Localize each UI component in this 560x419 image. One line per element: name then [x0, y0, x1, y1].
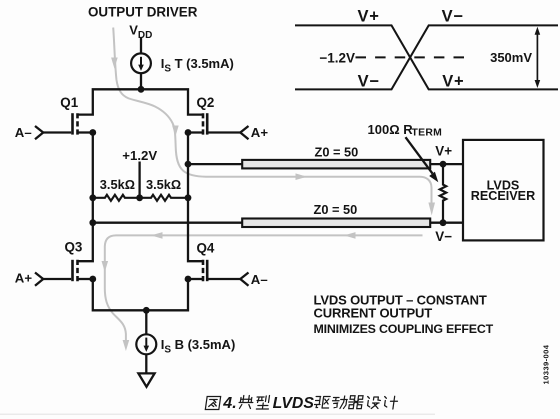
svg-text:V+: V+ — [435, 143, 452, 158]
node V- — [440, 219, 447, 226]
wire Q2 gate to A+ chevron — [209, 131, 241, 133]
node Q1 source — [89, 129, 96, 136]
svg-text:V−: V− — [435, 229, 452, 244]
wire bottom output rail to line — [93, 222, 242, 224]
wire top rail with left and right drops — [78, 89, 204, 114]
wire current source to rail — [140, 73, 142, 89]
transistor Q1 — [78, 131, 93, 133]
svg-text:−1.2V: −1.2V — [319, 50, 355, 65]
svg-text:3.5kΩ: 3.5kΩ — [100, 177, 135, 192]
wire output+ to transmission line — [188, 163, 242, 165]
svg-text:350mV: 350mV — [490, 50, 532, 65]
svg-text:A–: A– — [251, 272, 268, 287]
node Q4 source — [185, 276, 192, 283]
wire to IS B — [145, 310, 147, 334]
gray current flow path top loop — [113, 28, 431, 203]
svg-text:Z0 = 50: Z0 = 50 — [315, 144, 359, 159]
svg-text:IS B (3.5mA): IS B (3.5mA) — [161, 337, 236, 355]
svg-text:TERM: TERM — [412, 127, 443, 138]
wire VDD stem — [140, 38, 142, 54]
svg-text:V−: V− — [358, 73, 380, 91]
svg-text:Q3: Q3 — [65, 239, 83, 254]
svg-text:RECEIVER: RECEIVER — [471, 189, 535, 203]
transmission line Z0=50 bottom — [242, 219, 430, 228]
input A- bottom chevron — [240, 273, 248, 286]
gray arrowhead down at RTERM — [428, 203, 435, 216]
eye diagram -1.2V dashed level — [356, 56, 465, 58]
svg-text:V+: V+ — [358, 8, 380, 26]
svg-text:MINIMIZES COUPLING EFFECT: MINIMIZES COUPLING EFFECT — [314, 322, 494, 336]
node V+ — [440, 161, 447, 168]
wire line to V- node and receiver — [430, 222, 463, 224]
caption char dong — [331, 396, 347, 409]
eye diagram waveform line 2 — [295, 25, 558, 89]
input A+ top chevron — [240, 126, 248, 139]
svg-text:IS T (3.5mA): IS T (3.5mA) — [161, 56, 234, 74]
wire Q3 source down and bottom rail and Q4 source down — [93, 279, 188, 310]
node right resistor rail — [185, 194, 192, 201]
arrow RTERM label pointer — [406, 137, 433, 173]
svg-text:A+: A+ — [251, 125, 269, 140]
svg-text:V−: V− — [442, 8, 464, 26]
wire right column — [188, 133, 203, 262]
svg-text:Q1: Q1 — [60, 95, 78, 110]
svg-text:A+: A+ — [15, 271, 33, 286]
caption char qu — [314, 397, 330, 409]
wire A+ to Q3 gate — [43, 278, 71, 280]
transistor Q4 — [188, 278, 203, 280]
svg-text:CURRENT OUTPUT: CURRENT OUTPUT — [314, 305, 433, 320]
gray arrowhead left on bottom line — [151, 232, 163, 239]
gray arrowhead left on bottom line (second) — [344, 232, 356, 239]
caption figure 4 — [205, 396, 398, 410]
svg-text:10339-004: 10339-004 — [542, 344, 551, 384]
caption char ji — [383, 396, 398, 409]
wire line to V+ node and receiver — [430, 163, 463, 165]
gray arrowhead down near VDD — [111, 58, 118, 69]
wire Q4 gate to A- chevron — [209, 278, 241, 280]
gray arrowhead right on top line — [296, 173, 308, 180]
caption char dian — [238, 396, 254, 409]
transmission line Z0=50 top — [242, 160, 430, 169]
wire A- to Q1 gate — [43, 131, 71, 133]
caption char qi — [348, 396, 364, 409]
svg-text:VDD: VDD — [129, 23, 152, 41]
transistor Q2 — [188, 131, 203, 133]
svg-text:Q2: Q2 — [197, 95, 215, 110]
ground — [138, 373, 154, 386]
gray arrowhead down near Q2 — [172, 126, 179, 137]
svg-text:+1.2V: +1.2V — [122, 148, 157, 163]
resistor R1 3.5k and resistor R2 3.5k rail — [93, 195, 188, 201]
svg-text:Q4: Q4 — [197, 240, 215, 255]
svg-text:Z0 = 50: Z0 = 50 — [314, 202, 358, 217]
node bottom rail center — [143, 307, 150, 314]
svg-text:4.: 4. — [222, 395, 236, 412]
node rail center — [138, 86, 145, 93]
input A+ bottom chevron — [35, 273, 43, 286]
eye diagram 350mV arrow — [536, 32, 538, 83]
svg-text:3.5kΩ: 3.5kΩ — [146, 177, 181, 192]
node left bottom output rail — [89, 219, 96, 226]
node left resistor rail — [89, 194, 96, 201]
svg-text:A–: A– — [15, 125, 32, 140]
gray arrowhead down left column — [102, 261, 109, 272]
wire +1.2V stub — [138, 162, 140, 198]
svg-text:OUTPUT DRIVER: OUTPUT DRIVER — [88, 5, 198, 20]
current source IS B — [136, 334, 156, 354]
node resistor midpoint — [136, 194, 143, 201]
svg-text:V+: V+ — [442, 73, 464, 91]
eye diagram waveform line 1 — [295, 25, 558, 89]
LVDS receiver box — [463, 140, 544, 241]
svg-text:100Ω R: 100Ω R — [368, 122, 414, 137]
caption char xing — [255, 396, 270, 410]
caption char she — [366, 397, 381, 409]
caption char tu — [205, 397, 220, 410]
current source IS T — [131, 53, 151, 73]
wire IS B to ground — [145, 354, 147, 373]
gray current flow path bottom loop — [105, 235, 423, 340]
node Q3 source — [89, 276, 96, 283]
gray arrowhead down at IS B — [123, 340, 130, 351]
resistor RTERM 100ohm — [440, 164, 446, 223]
faint bottom rule — [0, 413, 435, 415]
transistor Q3 — [78, 278, 93, 280]
wire left column — [78, 133, 93, 262]
input A- top chevron — [35, 126, 43, 139]
svg-text:LVDS: LVDS — [273, 395, 315, 412]
node Q2 source — [185, 129, 192, 136]
node right output top — [185, 161, 192, 168]
